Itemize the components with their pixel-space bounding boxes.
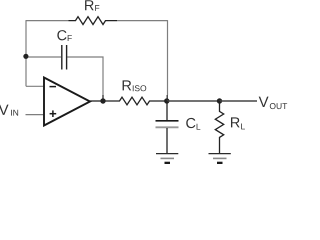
resistor R_L bbox=[215, 101, 223, 153]
node: output junction dot bbox=[164, 98, 169, 103]
label R_L bbox=[231, 117, 240, 127]
capacitor C_F bbox=[62, 45, 67, 70]
wire: top feedback horizontal left segment bbox=[26, 20, 168, 115]
wire: right feedback vertical bbox=[167, 20, 169, 95]
ground under R_L bbox=[209, 154, 231, 163]
resistor R_F bbox=[69, 17, 118, 25]
node: feedback junction dot bbox=[100, 98, 105, 103]
label R_F bbox=[85, 0, 94, 10]
ground under C_L bbox=[156, 154, 178, 163]
label C_F bbox=[57, 30, 66, 40]
node: load junction dot bbox=[217, 98, 222, 103]
wire: C_F branch left bbox=[26, 56, 61, 58]
wire: to V_OUT bbox=[220, 100, 258, 102]
op-amp U1 bbox=[44, 78, 90, 126]
label V_OUT bbox=[259, 97, 269, 107]
wire: op-amp output to node bbox=[90, 100, 103, 102]
wire: top feedback horizontal right segment bbox=[117, 20, 168, 22]
wire: output node to load node bbox=[167, 100, 220, 102]
wire: left feedback vertical bbox=[25, 20, 27, 86]
node: C_F tap dot bbox=[23, 54, 28, 59]
label V_IN bbox=[0, 105, 9, 115]
op-amp minus sign bbox=[50, 86, 57, 88]
wire: C_F branch right and down bbox=[67, 57, 103, 95]
label R_ISO bbox=[123, 80, 132, 90]
resistor R_ISO bbox=[103, 97, 167, 105]
capacitor C_L bbox=[166, 101, 168, 120]
label C_L bbox=[186, 118, 195, 128]
op-amp plus sign bbox=[50, 110, 57, 117]
wire: inverting input wire bbox=[26, 85, 44, 87]
wire: V_IN input wire bbox=[26, 114, 45, 116]
